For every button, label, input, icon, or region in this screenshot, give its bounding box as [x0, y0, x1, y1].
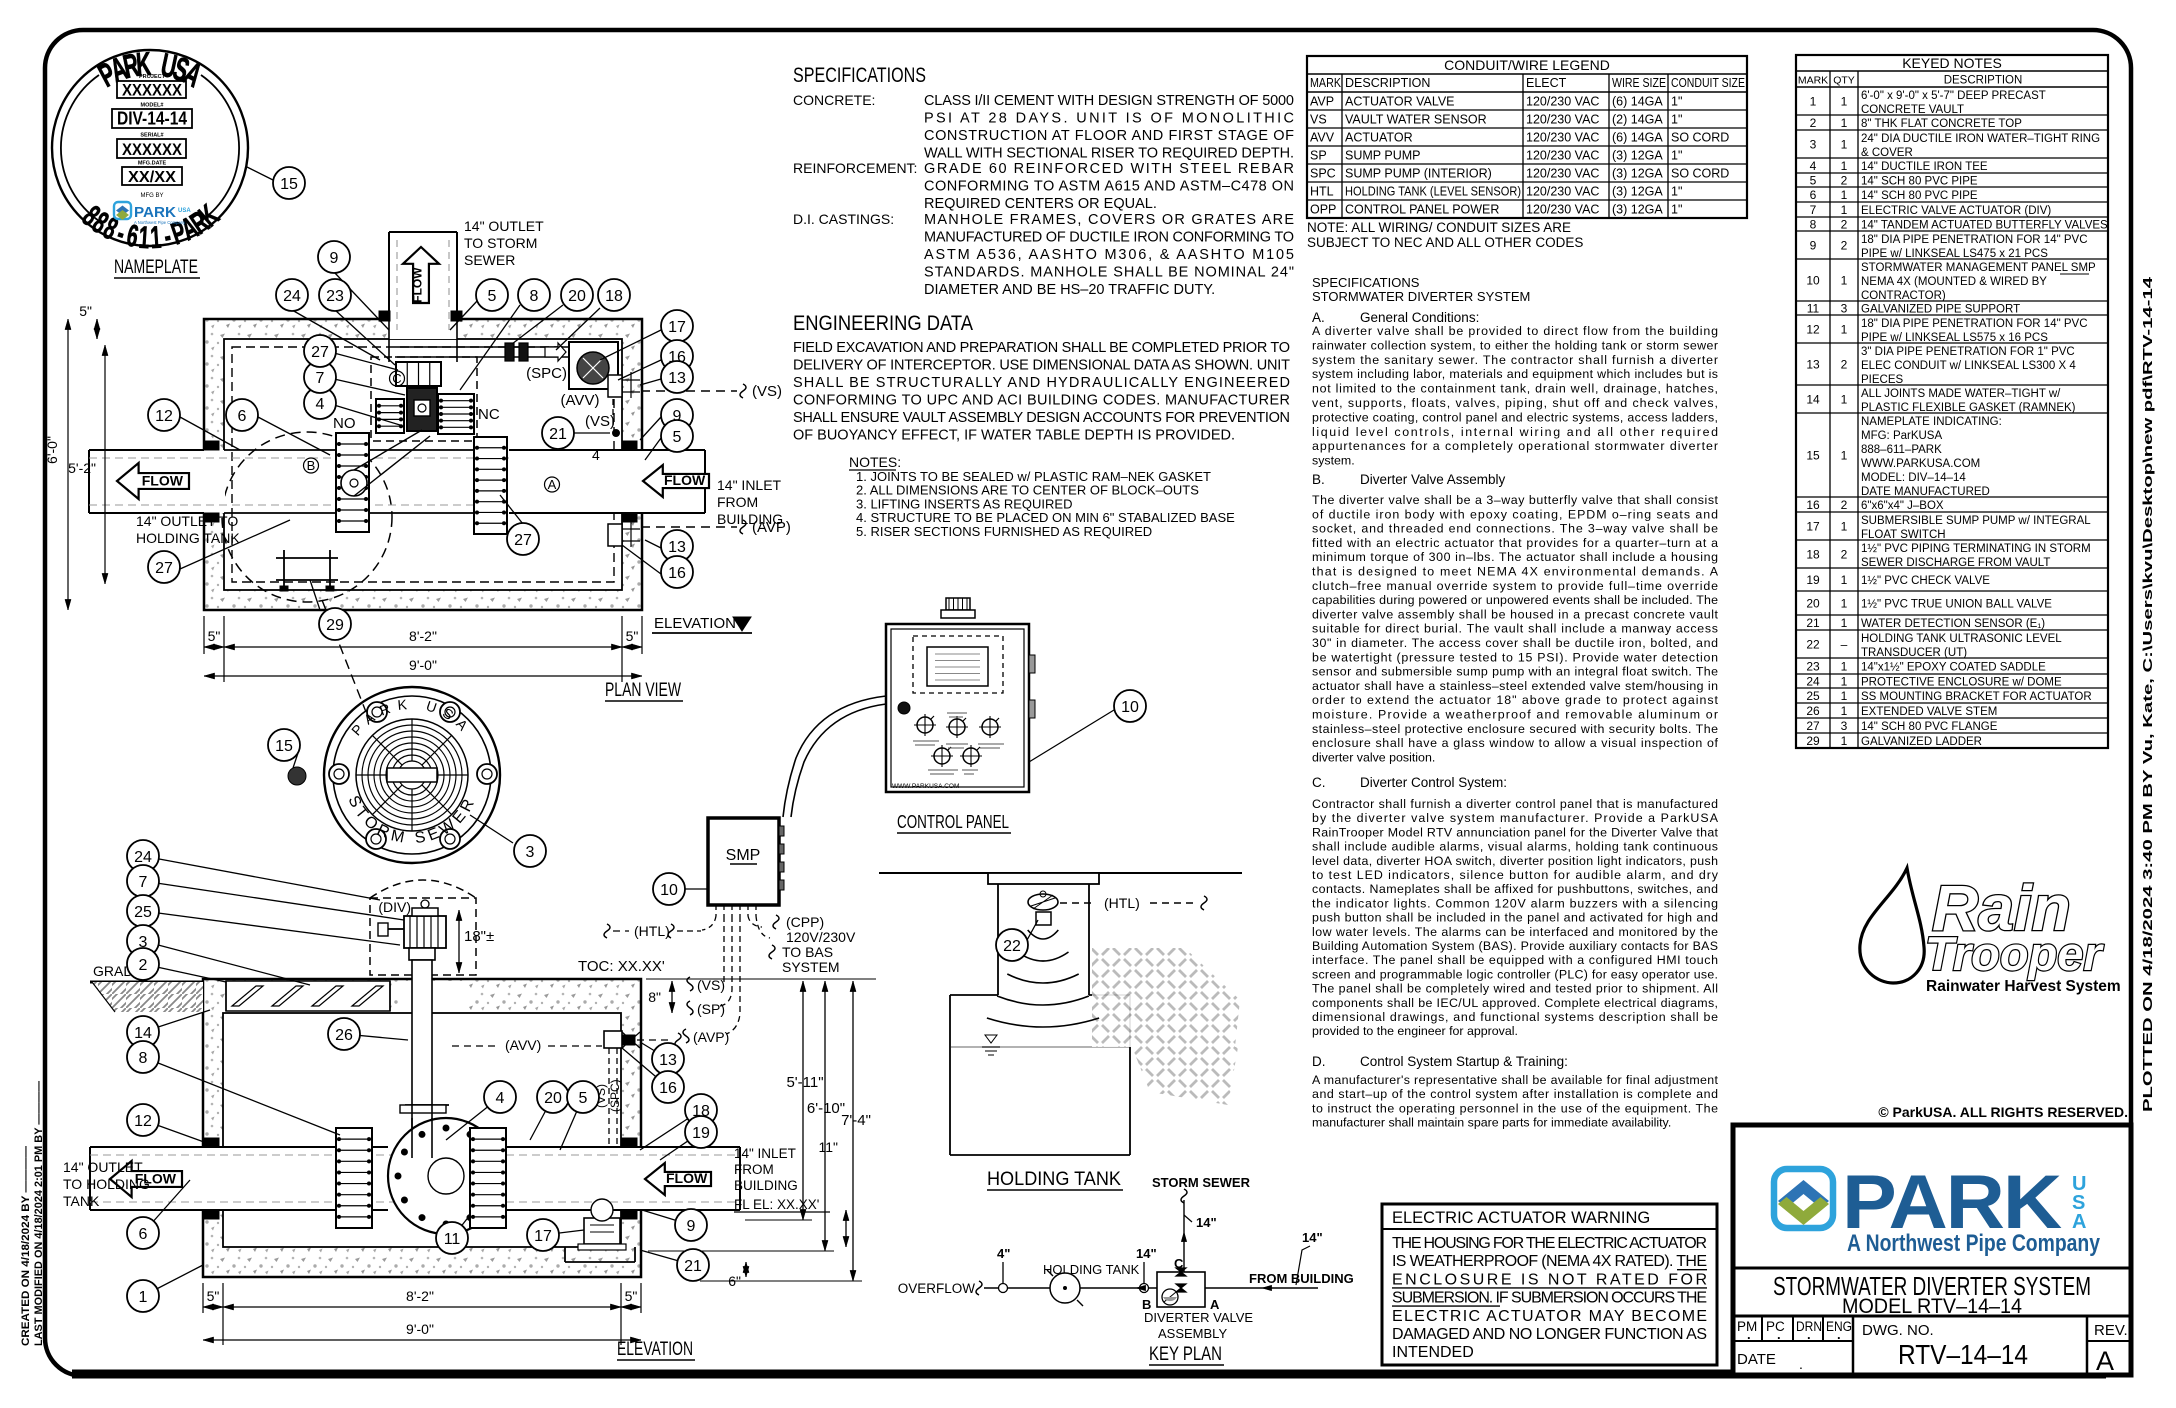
svg-text:protective coating, control pa: protective coating, control panel and el… [1312, 410, 1718, 424]
svg-text:4: 4 [316, 396, 325, 413]
svg-text:ASSEMBLY: ASSEMBLY [1158, 1326, 1227, 1341]
svg-text:suitable for direct burial. Th: suitable for direct burial. The vault sh… [1312, 622, 1718, 636]
svg-text:minimum torque of 300 in–lbs.: minimum torque of 300 in–lbs. The actuat… [1312, 550, 1718, 564]
svg-text:SUMP PUMP: SUMP PUMP [1345, 149, 1420, 163]
svg-text:GALVANIZED LADDER: GALVANIZED LADDER [1861, 736, 1982, 748]
svg-text:MANHOLE FRAMES, COVERS OR GRAT: MANHOLE FRAMES, COVERS OR GRATES ARE [924, 212, 1294, 228]
svg-text:(SP): (SP) [697, 1001, 725, 1017]
svg-text:(AVV): (AVV) [505, 1037, 541, 1053]
svg-text:6'-10": 6'-10" [807, 1100, 845, 1117]
svg-text:SPC: SPC [1310, 167, 1336, 181]
svg-text:2: 2 [1841, 498, 1848, 512]
svg-text:6: 6 [1810, 188, 1817, 202]
svg-text:THE HOUSING FOR THE ELECTRIC A: THE HOUSING FOR THE ELECTRIC ACTUATOR [1392, 1235, 1707, 1252]
svg-text:BUILDING: BUILDING [717, 511, 783, 527]
svg-text:CONFORMING TO UPC AND ACI BUIL: CONFORMING TO UPC AND ACI BUILDING CODES… [793, 393, 1290, 409]
svg-text:4": 4" [997, 1246, 1010, 1261]
svg-text:23: 23 [1806, 660, 1820, 674]
svg-text:CONFORMING TO ASTM A615 AND AS: CONFORMING TO ASTM A615 AND ASTM–C478 ON [924, 179, 1294, 195]
svg-text:TO BAS: TO BAS [782, 944, 833, 960]
svg-text:rainwater collection system, t: rainwater collection system, to either t… [1312, 338, 1718, 352]
svg-text:VAULT WATER SENSOR: VAULT WATER SENSOR [1345, 113, 1487, 127]
svg-text:RainTrooper Model RTV annuncia: RainTrooper Model RTV annunciation panel… [1312, 825, 1719, 839]
svg-text:10: 10 [660, 882, 678, 899]
svg-text:by the diverter valve system m: by the diverter valve system manufacture… [1312, 811, 1719, 825]
svg-text:C.: C. [1312, 775, 1326, 790]
svg-text:© ParkUSA. ALL RIGHTS RESERVE: © ParkUSA. ALL RIGHTS RESERVED. [1878, 1104, 2128, 1120]
svg-text:17: 17 [534, 1228, 552, 1245]
svg-text:not limited to the containment: not limited to the containment tank, dra… [1312, 382, 1718, 396]
svg-text:system the sanitary sewer. The: system the sanitary sewer. The contracto… [1312, 353, 1718, 367]
svg-text:XX/XX: XX/XX [128, 169, 176, 186]
svg-text:.: . [1747, 1327, 1751, 1342]
svg-text:C: C [392, 371, 401, 386]
svg-text:5": 5" [79, 303, 92, 319]
svg-text:DESCRIPTION: DESCRIPTION [1345, 76, 1430, 90]
svg-text:3: 3 [1841, 302, 1848, 316]
svg-text:SPECIFICATIONS: SPECIFICATIONS [793, 64, 926, 87]
svg-text:6'-0": 6'-0" [44, 436, 60, 464]
svg-text:1: 1 [1841, 734, 1848, 748]
svg-text:SP: SP [1310, 149, 1327, 163]
svg-text:CONTRACTOR): CONTRACTOR) [1861, 290, 1946, 302]
svg-text:NOTE: ALL WIRING/ CONDUIT SIZ: NOTE: ALL WIRING/ CONDUIT SIZES ARE [1307, 220, 1571, 235]
svg-text:Building Automation System (BA: Building Automation System (BAS). Provid… [1312, 939, 1718, 953]
svg-text:2: 2 [1841, 358, 1848, 372]
svg-text:2: 2 [1841, 174, 1848, 188]
svg-text:18"±: 18"± [464, 928, 494, 945]
svg-text:TO HOLDING: TO HOLDING [63, 1176, 150, 1192]
svg-text:25: 25 [1806, 689, 1820, 703]
svg-text:24: 24 [1806, 675, 1820, 689]
svg-text:PARK: PARK [134, 204, 176, 221]
svg-text:1: 1 [149, 221, 162, 255]
svg-text:A.: A. [1312, 310, 1325, 325]
svg-text:6: 6 [238, 408, 247, 425]
svg-text:SO CORD: SO CORD [1671, 131, 1729, 145]
svg-text:CONSTRUCTION AT FLOOR AND FIRS: CONSTRUCTION AT FLOOR AND FIRST STAGE OF [924, 128, 1294, 144]
svg-text:(VS): (VS) [752, 383, 782, 400]
svg-text:.: . [1799, 1356, 1803, 1372]
svg-text:GRADE 60 REINFORCED WITH STEEL: GRADE 60 REINFORCED WITH STEEL REBAR [924, 161, 1294, 177]
svg-text:SYSTEM: SYSTEM [782, 959, 840, 975]
svg-text:1: 1 [1841, 203, 1848, 217]
svg-text:29: 29 [1806, 734, 1820, 748]
svg-text:6": 6" [728, 1273, 741, 1289]
svg-text:TO STORM: TO STORM [464, 235, 537, 251]
svg-text:ELECTRIC ACTUATOR WARNING: ELECTRIC ACTUATOR WARNING [1392, 1209, 1650, 1227]
svg-text:13: 13 [659, 1052, 677, 1069]
svg-text:8'-2": 8'-2" [409, 628, 437, 644]
svg-text:A Northwest Pipe Company: A Northwest Pipe Company [1847, 1230, 2101, 1257]
svg-text:D.: D. [1312, 1054, 1326, 1069]
svg-text:5: 5 [488, 288, 497, 305]
svg-text:1: 1 [1841, 274, 1848, 288]
svg-text:(3) 12GA: (3) 12GA [1612, 203, 1663, 217]
svg-text:ALL JOINTS MADE WATER–TIGHT w/: ALL JOINTS MADE WATER–TIGHT w/ [1861, 388, 2061, 400]
svg-text:22: 22 [1806, 638, 1820, 652]
svg-text:1: 1 [1841, 597, 1848, 611]
svg-text:21: 21 [549, 426, 567, 443]
svg-text:clutch–free manual override sy: clutch–free manual override system to pr… [1312, 579, 1718, 593]
svg-text:1: 1 [1841, 675, 1848, 689]
svg-text:CONTROL PANEL POWER: CONTROL PANEL POWER [1345, 203, 1499, 217]
svg-text:13: 13 [668, 370, 686, 387]
svg-text:27: 27 [1806, 719, 1820, 733]
svg-text:SUMP PUMP (INTERIOR): SUMP PUMP (INTERIOR) [1345, 167, 1492, 181]
svg-text:FIELD EXCAVATION AND PREPARATI: FIELD EXCAVATION AND PREPARATION SHALL B… [793, 340, 1290, 356]
svg-text:24" DIA DUCTILE IRON WATER–TIG: 24" DIA DUCTILE IRON WATER–TIGHT RING [1861, 133, 2100, 145]
svg-text:13: 13 [1806, 358, 1820, 372]
svg-text:manufacturer shall maintain sp: manufacturer shall maintain spare parts … [1312, 1116, 1671, 1130]
svg-text:27: 27 [311, 344, 329, 361]
svg-text:General Conditions:: General Conditions: [1360, 310, 1479, 325]
svg-text:OVERFLOW: OVERFLOW [898, 1281, 976, 1296]
svg-text:5": 5" [208, 628, 221, 644]
svg-text:ELECTRIC ACTUATOR MAY BECOME: ELECTRIC ACTUATOR MAY BECOME [1392, 1308, 1707, 1325]
svg-text:OF BUOYANCY EFFECT, IF WATER T: OF BUOYANCY EFFECT, IF WATER TABLE DEPTH… [793, 428, 1235, 444]
svg-text:14"x1½" EPOXY COATED SADDLE: 14"x1½" EPOXY COATED SADDLE [1861, 662, 2046, 674]
svg-text:FLOW: FLOW [411, 267, 425, 303]
svg-text:WATER DETECTION SENSOR (E₁): WATER DETECTION SENSOR (E₁) [1861, 618, 2045, 630]
svg-text:5": 5" [625, 1288, 638, 1304]
svg-text:HOLDING TANK: HOLDING TANK [136, 530, 240, 546]
svg-text:CREATED ON 4/18/2024 BY ————: CREATED ON 4/18/2024 BY ———— [20, 1146, 32, 1346]
svg-text:1: 1 [1841, 159, 1848, 173]
svg-text:26: 26 [1806, 704, 1820, 718]
svg-text:REINFORCEMENT:: REINFORCEMENT: [793, 160, 917, 176]
svg-text:DIAMETER AND BE HS–20 TRAFFIC: DIAMETER AND BE HS–20 TRAFFIC DUTY. [924, 282, 1215, 298]
svg-text:1: 1 [1841, 660, 1848, 674]
svg-text:17: 17 [1806, 520, 1820, 534]
svg-text:21: 21 [1806, 616, 1820, 630]
svg-text:(6) 14GA: (6) 14GA [1612, 131, 1663, 145]
svg-text:B: B [307, 458, 316, 473]
svg-text:STANDARDS. MANHOLE SHALL BE NO: STANDARDS. MANHOLE SHALL BE NOMINAL 24" [924, 265, 1294, 281]
svg-text:(AVV): (AVV) [561, 392, 600, 409]
svg-text:& COVER: & COVER [1861, 147, 1913, 159]
svg-text:MFG BY: MFG BY [140, 193, 163, 199]
svg-text:A diverter valve shall be prov: A diverter valve shall be provided to di… [1312, 324, 1718, 338]
svg-text:3: 3 [526, 844, 535, 861]
svg-text:AVV: AVV [1310, 131, 1335, 145]
svg-text:FROM BUILDING: FROM BUILDING [1249, 1271, 1354, 1286]
svg-text:D.I. CASTINGS:: D.I. CASTINGS: [793, 211, 894, 227]
svg-text:IS WEATHERPROOF (NEMA 4X RATED: IS WEATHERPROOF (NEMA 4X RATED). THE [1392, 1253, 1707, 1270]
svg-text:11": 11" [818, 1139, 838, 1155]
svg-text:Diverter Valve Assembly: Diverter Valve Assembly [1360, 472, 1506, 487]
svg-text:provided to the engineer for a: provided to the engineer for approval. [1312, 1024, 1518, 1038]
svg-text:5": 5" [207, 1288, 220, 1304]
svg-text:DWG. NO.: DWG. NO. [1862, 1322, 1934, 1339]
svg-text:14": 14" [1136, 1246, 1157, 1261]
svg-text:PROJECT: PROJECT [139, 74, 166, 80]
svg-text:14" INLET: 14" INLET [734, 1146, 796, 1161]
svg-text:(HTL): (HTL) [634, 923, 670, 939]
svg-text:27: 27 [155, 560, 173, 577]
svg-text:1: 1 [1841, 704, 1848, 718]
svg-text:(VS): (VS) [585, 413, 615, 430]
svg-text:(3) 12GA: (3) 12GA [1612, 185, 1663, 199]
svg-text:5. RISER SECTIONS FURNISHED AS: 5. RISER SECTIONS FURNISHED AS REQUIRED [856, 524, 1152, 539]
svg-text:(3) 12GA: (3) 12GA [1612, 167, 1663, 181]
svg-text:(DIV): (DIV) [378, 899, 411, 915]
svg-text:FL EL: XX.XX': FL EL: XX.XX' [734, 1197, 819, 1212]
svg-text:of ductile iron body with epox: of ductile iron body with epoxy coating,… [1312, 507, 1718, 521]
svg-text:21: 21 [684, 1258, 702, 1275]
svg-text:SHALL ENSURE VAULT ASSEMBLY DE: SHALL ENSURE VAULT ASSEMBLY DESIGN ACCOU… [793, 410, 1290, 426]
svg-text:1: 1 [1841, 449, 1848, 463]
svg-text:1": 1" [1671, 185, 1682, 199]
svg-text:CLASS I/II CEMENT WITH DESIGN: CLASS I/II CEMENT WITH DESIGN STRENGTH O… [924, 93, 1294, 109]
svg-text:sensor and submersible sump pu: sensor and submersible sump pump with an… [1312, 665, 1718, 679]
svg-text:18" DIA PIPE PENETRATION FOR 1: 18" DIA PIPE PENETRATION FOR 14" PVC [1861, 234, 2088, 246]
svg-text:DIV-14-14: DIV-14-14 [117, 109, 187, 129]
svg-text:5: 5 [1810, 174, 1817, 188]
svg-text:USA: USA [178, 208, 191, 214]
svg-text:3: 3 [1810, 138, 1817, 152]
svg-text:27: 27 [514, 532, 532, 549]
svg-text:(CPP): (CPP) [786, 914, 824, 930]
svg-text:FLOW: FLOW [142, 472, 184, 488]
svg-text:15: 15 [280, 176, 298, 193]
svg-text:2: 2 [139, 957, 148, 974]
svg-text:PLAN VIEW: PLAN VIEW [605, 680, 681, 701]
svg-text:120/230 VAC: 120/230 VAC [1526, 185, 1599, 199]
svg-text:CONDUIT/WIRE LEGEND: CONDUIT/WIRE LEGEND [1444, 57, 1610, 73]
svg-text:(6) 14GA: (6) 14GA [1612, 95, 1663, 109]
svg-text:2: 2 [1810, 116, 1817, 130]
svg-text:8'-2": 8'-2" [406, 1288, 434, 1304]
svg-text:B.: B. [1312, 472, 1325, 487]
svg-text:FROM: FROM [717, 494, 758, 510]
svg-text:MARK: MARK [1310, 76, 1342, 90]
svg-text:2: 2 [1841, 548, 1848, 562]
svg-text:MFG: ParKUSA: MFG: ParKUSA [1861, 430, 1942, 442]
svg-text:14" SCH 80 PVC PIPE: 14" SCH 80 PVC PIPE [1861, 176, 1978, 188]
svg-text:1": 1" [1671, 95, 1682, 109]
svg-text:6'-0" x 9'-0" x 5'-7" DEEP PRE: 6'-0" x 9'-0" x 5'-7" DEEP PRECAST [1861, 90, 2046, 102]
svg-text:ELECTRIC VALVE ACTUATOR (DIV): ELECTRIC VALVE ACTUATOR (DIV) [1861, 205, 2051, 217]
svg-text:14": 14" [1302, 1230, 1323, 1245]
svg-text:8: 8 [1810, 218, 1817, 232]
svg-text:120/230 VAC: 120/230 VAC [1526, 149, 1599, 163]
svg-text:The diverter valve shall be a: The diverter valve shall be a 3–way butt… [1312, 493, 1719, 507]
svg-text:liquid level controls, interna: liquid level controls, internal wiring a… [1312, 425, 1718, 439]
svg-text:17: 17 [668, 319, 686, 336]
svg-text:low water levels. The alarms c: low water levels. The alarms can be inte… [1312, 925, 1718, 939]
svg-text:NEMA 4X (MOUNTED & WIRED BY: NEMA 4X (MOUNTED & WIRED BY [1861, 276, 2047, 288]
svg-text:STORMWATER MANAGEMENT PANEL SM: STORMWATER MANAGEMENT PANEL SMP [1861, 262, 2096, 274]
svg-text:9: 9 [687, 1218, 696, 1235]
svg-text:MARK: MARK [1798, 75, 1828, 87]
svg-text:DESCRIPTION: DESCRIPTION [1944, 75, 2023, 87]
svg-text:(HTL): (HTL) [1104, 895, 1140, 911]
svg-text:XXXXXX: XXXXXX [122, 81, 183, 100]
svg-text:ASTM A536, AASHTO M306, & AASH: ASTM A536, AASHTO M306, & AASHTO M105 [924, 247, 1294, 263]
svg-text:7: 7 [1810, 203, 1817, 217]
svg-text:A: A [2096, 1346, 2114, 1376]
svg-text:12: 12 [155, 408, 173, 425]
svg-text:SMP: SMP [726, 847, 761, 864]
svg-text:20: 20 [568, 288, 586, 305]
svg-text:4: 4 [1810, 159, 1817, 173]
svg-text:shall include audible alarms,: shall include audible alarms, visual ala… [1312, 840, 1718, 854]
svg-text:GALVANIZED PIPE SUPPORT: GALVANIZED PIPE SUPPORT [1861, 304, 2020, 316]
svg-text:1½" PVC CHECK VALVE: 1½" PVC CHECK VALVE [1861, 575, 1990, 587]
svg-text:SS MOUNTING BRACKET FOR ACTUAT: SS MOUNTING BRACKET FOR ACTUATOR [1861, 691, 2092, 703]
svg-text:5'-2": 5'-2" [68, 460, 96, 476]
svg-text:6: 6 [139, 1226, 148, 1243]
svg-text:SPECIFICATIONS: SPECIFICATIONS [1312, 275, 1420, 290]
svg-text:system.: system. [1312, 454, 1355, 468]
svg-text:FROM: FROM [734, 1162, 774, 1177]
svg-text:1: 1 [1841, 393, 1848, 407]
svg-text:29: 29 [326, 617, 344, 634]
svg-text:MODEL#: MODEL# [141, 103, 164, 109]
svg-text:NAMEPLATE: NAMEPLATE [114, 257, 198, 278]
svg-text:EXTENDED VALVE STEM: EXTENDED VALVE STEM [1861, 706, 1997, 718]
svg-text:HOLDING TANK (LEVEL SENSOR): HOLDING TANK (LEVEL SENSOR) [1345, 185, 1521, 199]
svg-text:NO: NO [333, 415, 356, 432]
svg-text:1: 1 [1841, 138, 1848, 152]
svg-text:STORMWATER DIVERTER SYSTEM: STORMWATER DIVERTER SYSTEM [1312, 289, 1530, 304]
svg-text:BUILDING: BUILDING [734, 1178, 798, 1193]
svg-text:11: 11 [444, 1231, 461, 1248]
svg-text:20: 20 [1806, 597, 1820, 611]
svg-text:3" DIA PIPE PENETRATION FOR 1": 3" DIA PIPE PENETRATION FOR 1" PVC [1861, 346, 2075, 358]
svg-text:3: 3 [1841, 719, 1848, 733]
svg-text:INTENDED: INTENDED [1392, 1344, 1474, 1361]
svg-text:23: 23 [326, 288, 344, 305]
svg-text:120/230 VAC: 120/230 VAC [1526, 113, 1599, 127]
svg-text:1: 1 [1841, 188, 1848, 202]
svg-text:(VS): (VS) [697, 977, 725, 993]
svg-text:9: 9 [330, 250, 339, 267]
svg-text:120/230 VAC: 120/230 VAC [1526, 167, 1599, 181]
svg-text:socket, and threaded end conne: socket, and threaded end connections. Th… [1312, 522, 1718, 536]
svg-text:16: 16 [668, 565, 686, 582]
svg-text:ACTUATOR: ACTUATOR [1345, 131, 1413, 145]
svg-text:120V/230V: 120V/230V [786, 929, 856, 945]
svg-text:Trooper: Trooper [1925, 927, 2104, 980]
svg-text:SEWER DISCHARGE FROM VAULT: SEWER DISCHARGE FROM VAULT [1861, 557, 2050, 569]
svg-text:12: 12 [134, 1113, 152, 1130]
svg-text:PIPE w/ LINKSEAL LS575 x 16 PC: PIPE w/ LINKSEAL LS575 x 16 PCS [1861, 332, 2048, 344]
svg-text:KEYED NOTES: KEYED NOTES [1902, 55, 2002, 71]
svg-text:1: 1 [1841, 323, 1848, 337]
svg-text:interface. The panel shall be: interface. The panel shall be equipped w… [1312, 953, 1718, 967]
svg-text:enclosure shall have a glass w: enclosure shall have a glass window to a… [1312, 736, 1719, 750]
svg-text:18" DIA PIPE PENETRATION FOR 1: 18" DIA PIPE PENETRATION FOR 14" PVC [1861, 318, 2088, 330]
svg-text:8" THK FLAT CONCRETE TOP: 8" THK FLAT CONCRETE TOP [1861, 118, 2022, 130]
svg-text:9'-0": 9'-0" [406, 1321, 434, 1337]
svg-text:14: 14 [1806, 393, 1820, 407]
svg-text:MFG.DATE: MFG.DATE [138, 161, 167, 167]
svg-text:25: 25 [134, 904, 152, 921]
svg-text:MANUFACTURED OF DUCTILE IRON C: MANUFACTURED OF DUCTILE IRON CONFORMING … [924, 230, 1294, 246]
svg-text:ELECT: ELECT [1526, 76, 1567, 90]
svg-text:ELEC CONDUIT w/ LINKSEAL LS300: ELEC CONDUIT w/ LINKSEAL LS300 X 4 [1861, 360, 2076, 372]
svg-text:1: 1 [1841, 95, 1848, 109]
svg-text:22: 22 [1003, 938, 1021, 955]
svg-text:FLOW: FLOW [666, 1170, 708, 1186]
svg-text:11: 11 [1807, 302, 1820, 316]
svg-text:1: 1 [138, 221, 151, 255]
svg-text:stainless–steel protective enc: stainless–steel protective enclosure sec… [1312, 722, 1718, 736]
svg-text:1: 1 [1841, 520, 1848, 534]
svg-text:SHALL BE STRUCTURALLY AND HYDR: SHALL BE STRUCTURALLY AND HYDRAULICALLY … [793, 375, 1290, 391]
svg-text:A: A [548, 477, 557, 492]
svg-text:1½" PVC PIPING TERMINATING IN: 1½" PVC PIPING TERMINATING IN STORM [1861, 543, 2091, 555]
svg-text:.: . [1777, 1327, 1781, 1342]
svg-text:18: 18 [1806, 548, 1820, 562]
svg-text:LAST MODIFIED ON 4/18/2024 2:0: LAST MODIFIED ON 4/18/2024 2:01 PM BY ——… [33, 1081, 45, 1346]
svg-text:5: 5 [579, 1090, 588, 1107]
svg-text:(SPC): (SPC) [608, 1079, 622, 1112]
svg-text:SEWER: SEWER [464, 252, 515, 268]
svg-text:CONCRETE:: CONCRETE: [793, 92, 875, 108]
svg-text:7: 7 [139, 874, 148, 891]
svg-text:REV.: REV. [2094, 1322, 2128, 1339]
svg-text:capabilities during powered or: capabilities during powered or unpowered… [1312, 593, 1718, 607]
svg-text:DELIVERY OF INTERCEPTOR. USE D: DELIVERY OF INTERCEPTOR. USE DIMENSIONAL… [793, 358, 1290, 374]
svg-text:ACTUATOR VALVE: ACTUATOR VALVE [1345, 95, 1455, 109]
svg-text:2: 2 [1841, 239, 1848, 253]
svg-text:26: 26 [335, 1027, 353, 1044]
svg-text:888–611–PARK: 888–611–PARK [1861, 444, 1942, 456]
svg-text:9'-0": 9'-0" [409, 657, 437, 673]
svg-text:OPP: OPP [1310, 203, 1336, 217]
svg-text:level data, diverter HOA switc: level data, diverter HOA switch, diverte… [1312, 854, 1718, 868]
svg-text:ELEVATION: ELEVATION [617, 1339, 693, 1360]
svg-text:HOLDING TANK: HOLDING TANK [987, 1169, 1121, 1190]
svg-text:PLASTIC FLEXIBLE GASKET (RAMNE: PLASTIC FLEXIBLE GASKET (RAMNEK) [1861, 402, 2076, 414]
svg-text:WALL WITH SECTIONAL RISER TO R: WALL WITH SECTIONAL RISER TO REQUIRED DE… [924, 146, 1294, 162]
svg-text:FLOW: FLOW [664, 472, 706, 488]
svg-text:Rainwater Harvest System: Rainwater Harvest System [1926, 978, 2121, 995]
svg-text:(SPC): (SPC) [526, 365, 567, 382]
svg-text:24: 24 [283, 288, 301, 305]
svg-text:Control System Startup & Train: Control System Startup & Training: [1360, 1054, 1568, 1069]
svg-text:18: 18 [605, 288, 623, 305]
svg-text:the indicator lights. Common 1: the indicator lights. Common 120V alarm … [1312, 896, 1718, 910]
svg-text:TRANSDUCER (UT): TRANSDUCER (UT) [1861, 647, 1967, 659]
svg-text:20: 20 [544, 1090, 562, 1107]
svg-text:.: . [1807, 1327, 1811, 1342]
svg-text:components shall be IEC/UL app: components shall be IEC/UL approved. Com… [1312, 996, 1718, 1010]
svg-text:DIVERTER VALVE: DIVERTER VALVE [1144, 1310, 1253, 1325]
svg-text:diverter valve position.: diverter valve position. [1312, 750, 1435, 764]
svg-text:.: . [1837, 1327, 1841, 1342]
svg-text:SERIAL#: SERIAL# [140, 133, 163, 139]
svg-text:that is designed to meet NEMA: that is designed to meet NEMA 4X environ… [1312, 565, 1719, 579]
svg-text:14" OUTLET: 14" OUTLET [464, 218, 544, 234]
svg-text:(AVP): (AVP) [693, 1029, 729, 1045]
svg-text:(3) 12GA: (3) 12GA [1612, 149, 1663, 163]
svg-text:7: 7 [316, 370, 325, 387]
svg-text:120/230 VAC: 120/230 VAC [1526, 203, 1599, 217]
svg-text:SUBMERSION. IF SUBMERSION OCC: SUBMERSION. IF SUBMERSION OCCURS THE [1392, 1290, 1707, 1307]
svg-text:AVP: AVP [1310, 95, 1334, 109]
svg-text:24: 24 [134, 849, 152, 866]
svg-text:PLOTTED ON 4/18/2024 3:40 PM: PLOTTED ON 4/18/2024 3:40 PM BY Vu, Kate… [2141, 277, 2155, 1112]
svg-text:system including labor, materi: system including labor, materials and eq… [1312, 367, 1718, 381]
svg-text:1: 1 [1841, 689, 1848, 703]
svg-text:contacts. Nameplates shall be: contacts. Nameplates shall be affixed fo… [1312, 882, 1718, 896]
svg-text:30" in diameter. The access co: 30" in diameter. The access cover shall … [1312, 636, 1718, 650]
svg-text:and start–up of the control sy: and start–up of the control system after… [1312, 1087, 1718, 1101]
